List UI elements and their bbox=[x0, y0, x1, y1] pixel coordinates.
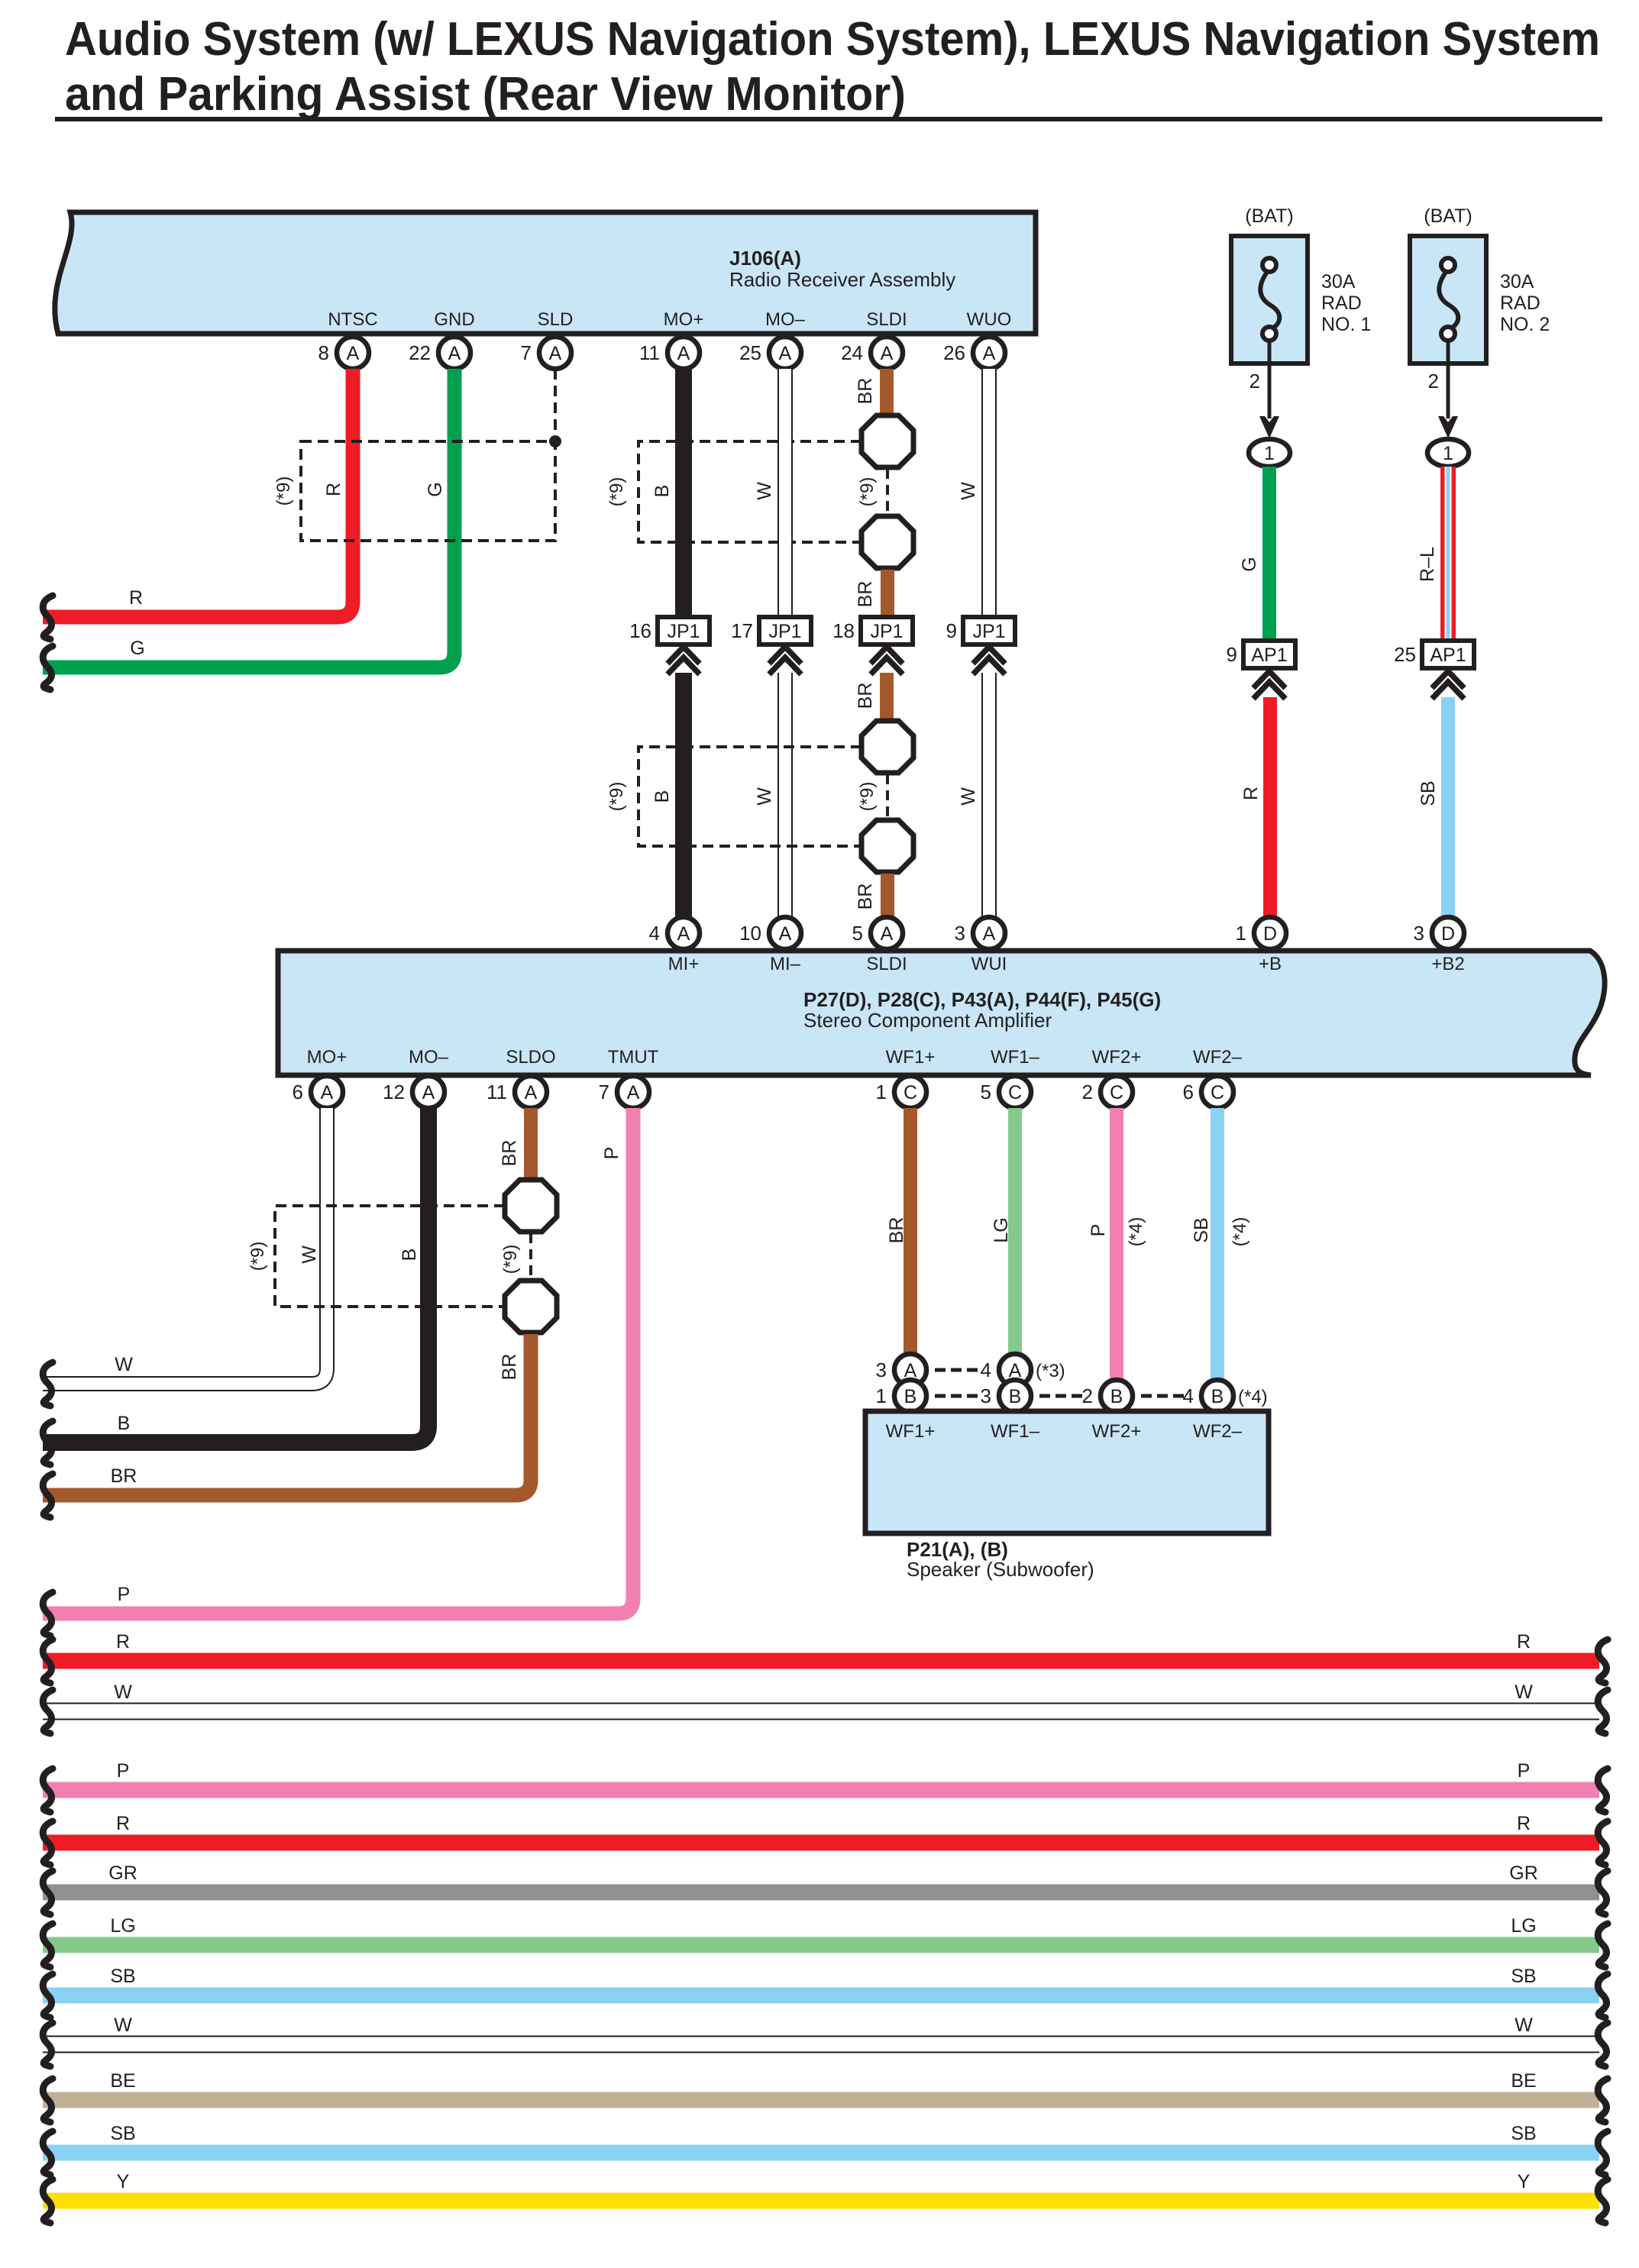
svg-text:A: A bbox=[627, 1082, 640, 1103]
svg-text:P: P bbox=[117, 1760, 130, 1782]
svg-text:A: A bbox=[549, 343, 562, 364]
svg-text:SLDI: SLDI bbox=[866, 954, 907, 974]
break squiggle R left bbox=[43, 596, 53, 639]
svg-text:12: 12 bbox=[383, 1081, 405, 1103]
svg-text:4: 4 bbox=[1183, 1384, 1194, 1407]
svg-text:22: 22 bbox=[409, 341, 431, 364]
svg-text:R: R bbox=[116, 1631, 130, 1653]
svg-text:JP1: JP1 bbox=[667, 621, 700, 642]
break squiggle P right y2344 bbox=[1598, 1769, 1608, 1812]
svg-text:NO. 2: NO. 2 bbox=[1500, 314, 1550, 335]
radio pin 7(A) bbox=[521, 337, 571, 369]
svg-text:17: 17 bbox=[731, 619, 753, 642]
svg-text:1: 1 bbox=[1236, 922, 1246, 945]
break squiggle Y left y2882 bbox=[43, 2179, 53, 2223]
svg-text:BR: BR bbox=[855, 683, 876, 709]
amp bottom pin 2(C) bbox=[1082, 1076, 1133, 1108]
svg-text:SB: SB bbox=[1418, 780, 1439, 806]
wire LG horizontal y2547 bbox=[43, 1937, 1599, 1953]
svg-text:B: B bbox=[118, 1413, 131, 1434]
svg-text:(*9): (*9) bbox=[247, 1242, 268, 1271]
svg-text:11: 11 bbox=[487, 1081, 507, 1103]
svg-text:WF1+: WF1+ bbox=[886, 1421, 936, 1442]
svg-text:P: P bbox=[118, 1584, 131, 1605]
wire SB horizontal y2613 bbox=[43, 1988, 1599, 2004]
svg-text:(*4): (*4) bbox=[1238, 1387, 1268, 1407]
speaker pin 2(B) bbox=[1082, 1380, 1133, 1412]
svg-text:5: 5 bbox=[981, 1081, 991, 1103]
wire W MI- lower bbox=[777, 673, 793, 920]
wire W horizontal y2241 bbox=[43, 1703, 1599, 1720]
svg-text:(*9): (*9) bbox=[857, 477, 878, 507]
wire BR SLDI seg2 bbox=[881, 570, 894, 617]
wire Y horizontal y2882 bbox=[43, 2193, 1599, 2209]
arrowhead fuse 2 bbox=[1438, 416, 1458, 438]
wire W WUI lower bbox=[981, 673, 997, 920]
svg-text:Audio System (w/ LEXUS Navigat: Audio System (w/ LEXUS Navigation System… bbox=[65, 13, 1600, 66]
break squiggle BR left bbox=[43, 1474, 53, 1517]
svg-text:BR: BR bbox=[111, 1465, 137, 1487]
svg-text:16: 16 bbox=[629, 619, 651, 642]
svg-text:(*9): (*9) bbox=[500, 1245, 521, 1275]
break squiggle SB left y2819 bbox=[43, 2131, 53, 2175]
wire G fuse1 to AP1 bbox=[1262, 467, 1276, 641]
radio pin 24(A) bbox=[841, 337, 903, 369]
svg-text:BR: BR bbox=[499, 1354, 520, 1381]
svg-text:A: A bbox=[779, 923, 792, 945]
svg-text:5: 5 bbox=[852, 922, 863, 945]
break squiggle GR left y2478 bbox=[43, 1871, 53, 1914]
amp bottom pin 5(C) bbox=[981, 1076, 1031, 1108]
dashed link octagons 1-2 bbox=[886, 469, 889, 515]
svg-text:A: A bbox=[677, 923, 690, 945]
junction connector JP1 17 bbox=[731, 617, 811, 674]
break squiggle R left y2175 bbox=[43, 1640, 53, 1683]
svg-text:(*4): (*4) bbox=[1230, 1217, 1250, 1247]
svg-text:A: A bbox=[881, 343, 894, 364]
svg-text:(*9): (*9) bbox=[606, 782, 627, 812]
svg-text:Radio Receiver Assembly: Radio Receiver Assembly bbox=[729, 268, 955, 291]
speaker pin 4(A) bbox=[981, 1354, 1031, 1386]
svg-text:R: R bbox=[129, 587, 143, 609]
break squiggle BE right y2750 bbox=[1598, 2079, 1608, 2122]
svg-text:AP1: AP1 bbox=[1430, 645, 1466, 666]
svg-text:R: R bbox=[323, 483, 344, 496]
amp top pin 5(A) bbox=[852, 917, 903, 949]
svg-text:3: 3 bbox=[876, 1359, 887, 1381]
amp top pin 4(A) bbox=[649, 917, 700, 949]
break squiggle W right y2241 bbox=[1598, 1690, 1608, 1733]
shield octagon 6 bbox=[505, 1281, 557, 1333]
svg-text:G: G bbox=[130, 638, 144, 659]
svg-text:4: 4 bbox=[981, 1359, 991, 1381]
shield octagon 3 bbox=[862, 721, 913, 773]
svg-text:C: C bbox=[1211, 1082, 1224, 1103]
radio pin 22(A) bbox=[409, 337, 470, 369]
svg-text:W: W bbox=[114, 1682, 132, 1703]
speaker pin 3(A) bbox=[876, 1354, 926, 1386]
svg-text:8: 8 bbox=[318, 341, 329, 364]
svg-text:W: W bbox=[299, 1245, 320, 1264]
speaker pin 4(B) bbox=[1183, 1380, 1233, 1412]
wire SB WF2- bbox=[1211, 1108, 1224, 1382]
svg-text:W: W bbox=[114, 2014, 132, 2036]
svg-text:W: W bbox=[958, 787, 979, 806]
svg-text:GR: GR bbox=[1509, 1863, 1538, 1884]
amp bottom pin 6(C) bbox=[1183, 1076, 1233, 1108]
svg-text:A: A bbox=[448, 343, 461, 364]
svg-text:(BAT): (BAT) bbox=[1245, 205, 1293, 227]
svg-text:3: 3 bbox=[981, 1384, 991, 1407]
svg-text:B: B bbox=[1110, 1386, 1123, 1407]
wire B MO+ upper bbox=[675, 369, 692, 617]
svg-text:G: G bbox=[425, 482, 446, 496]
svg-text:JP1: JP1 bbox=[972, 621, 1005, 642]
svg-text:P: P bbox=[1518, 1760, 1531, 1782]
svg-text:6: 6 bbox=[293, 1081, 303, 1103]
radio pin 25(A) bbox=[739, 337, 801, 369]
svg-text:P: P bbox=[1088, 1224, 1109, 1237]
wire R horizontal y2413 bbox=[43, 1835, 1599, 1851]
wire R-L fuse2 to AP1 bbox=[1440, 467, 1456, 641]
svg-text:Speaker (Subwoofer): Speaker (Subwoofer) bbox=[907, 1558, 1094, 1581]
svg-text:10: 10 bbox=[739, 922, 761, 945]
wire R horizontal y2175 bbox=[43, 1653, 1599, 1669]
junction connector AP1 25 bbox=[1394, 641, 1474, 699]
break squiggle Y right y2882 bbox=[1598, 2179, 1608, 2223]
svg-text:GR: GR bbox=[108, 1863, 137, 1884]
svg-text:SB: SB bbox=[110, 2123, 135, 2144]
oval connector 1 fuse 2 bbox=[1427, 439, 1469, 467]
svg-text:25: 25 bbox=[1394, 643, 1416, 666]
amp bottom pin 1(C) bbox=[876, 1076, 926, 1108]
break squiggle SB right y2819 bbox=[1598, 2131, 1608, 2175]
wire fuse 2 to connector bbox=[1447, 341, 1450, 418]
svg-text:Stereo Component Amplifier: Stereo Component Amplifier bbox=[803, 1009, 1052, 1032]
shield dashed box MO+/MO- bbox=[638, 441, 862, 542]
shield octagon 5 bbox=[505, 1180, 557, 1232]
wire W horizontal y2677 bbox=[43, 2036, 1599, 2053]
dashes between 1(B) 3(B) bbox=[935, 1394, 978, 1398]
svg-text:3: 3 bbox=[955, 922, 965, 945]
svg-text:+B2: +B2 bbox=[1431, 954, 1464, 974]
svg-text:30A: 30A bbox=[1321, 271, 1356, 292]
svg-text:W: W bbox=[958, 482, 979, 500]
wire W MO- upper bbox=[777, 369, 793, 617]
wire G from GND bbox=[43, 369, 454, 667]
speaker pin 3(B) bbox=[981, 1380, 1031, 1412]
svg-text:B: B bbox=[1009, 1386, 1022, 1407]
amp bottom pin 6(A) bbox=[293, 1076, 343, 1108]
oval connector 1 fuse 1 bbox=[1249, 439, 1290, 467]
speaker pin 1(B) bbox=[876, 1380, 926, 1412]
wire W WUO upper bbox=[981, 369, 997, 617]
arrowhead fuse 1 bbox=[1259, 416, 1279, 438]
svg-text:2: 2 bbox=[1249, 370, 1260, 393]
svg-text:2: 2 bbox=[1428, 370, 1439, 393]
svg-text:2: 2 bbox=[1082, 1384, 1093, 1407]
svg-text:SB: SB bbox=[1511, 1966, 1536, 1987]
junction dot SLD bbox=[549, 435, 561, 447]
wire GR horizontal y2478 bbox=[43, 1885, 1599, 1901]
svg-text:(*9): (*9) bbox=[273, 477, 294, 506]
wire BR WF1+ bbox=[904, 1108, 917, 1356]
junction connector JP1 9 bbox=[946, 617, 1015, 674]
svg-text:B: B bbox=[1211, 1386, 1224, 1407]
svg-text:D: D bbox=[1441, 923, 1455, 945]
fuse element 1 bbox=[1260, 271, 1279, 329]
stereo component amplifier box bbox=[278, 951, 1605, 1075]
shield dashed box NTSC/GND bbox=[301, 441, 555, 541]
svg-text:SB: SB bbox=[1511, 2123, 1536, 2144]
svg-text:J106(A): J106(A) bbox=[729, 247, 801, 270]
svg-text:24: 24 bbox=[841, 341, 863, 364]
svg-text:(*3): (*3) bbox=[1036, 1361, 1065, 1381]
svg-text:7: 7 bbox=[599, 1081, 609, 1103]
svg-text:1: 1 bbox=[1443, 443, 1453, 464]
svg-text:A: A bbox=[321, 1082, 334, 1103]
svg-text:Y: Y bbox=[1518, 2171, 1531, 2192]
break squiggle SB right y2613 bbox=[1598, 1974, 1608, 2018]
svg-text:MO+: MO+ bbox=[664, 309, 704, 330]
svg-text:BE: BE bbox=[110, 2070, 135, 2092]
wire LG WF1- bbox=[1008, 1108, 1022, 1356]
dashed link octagons 3-4 bbox=[886, 774, 889, 819]
wire P TMUT bbox=[43, 1108, 633, 1614]
svg-text:SLD: SLD bbox=[538, 309, 574, 330]
break squiggle R right y2413 bbox=[1598, 1821, 1608, 1865]
fuse box 30A RAD NO. 2 bbox=[1410, 236, 1486, 363]
radio receiver assembly box J106(A) bbox=[55, 212, 1036, 334]
amp top pin 1(D) bbox=[1236, 917, 1286, 949]
fuse box 30A RAD NO. 1 bbox=[1231, 236, 1308, 363]
wire BR SLDO seg1 bbox=[524, 1108, 538, 1181]
svg-text:GND: GND bbox=[434, 309, 474, 330]
svg-text:WF2–: WF2– bbox=[1193, 1421, 1243, 1442]
wire SB horizontal y2819 bbox=[43, 2145, 1599, 2161]
svg-text:MI–: MI– bbox=[770, 954, 801, 974]
svg-text:A: A bbox=[881, 923, 894, 945]
svg-text:R: R bbox=[1517, 1631, 1531, 1653]
dashed wire SLD bbox=[554, 369, 557, 441]
svg-text:4: 4 bbox=[649, 922, 660, 945]
svg-text:LG: LG bbox=[991, 1217, 1012, 1242]
wire P WF2+ bbox=[1110, 1108, 1123, 1382]
svg-text:1: 1 bbox=[876, 1384, 887, 1407]
wire R AP1 to +B bbox=[1263, 697, 1277, 920]
svg-text:SLDI: SLDI bbox=[866, 309, 907, 330]
svg-text:and Parking Assist (Rear View: and Parking Assist (Rear View Monitor) bbox=[65, 68, 906, 121]
svg-text:NTSC: NTSC bbox=[328, 309, 377, 330]
svg-text:R: R bbox=[1240, 787, 1262, 800]
svg-text:11: 11 bbox=[639, 341, 660, 364]
svg-text:A: A bbox=[983, 923, 996, 945]
svg-text:RAD: RAD bbox=[1500, 292, 1540, 314]
svg-text:G: G bbox=[1239, 557, 1260, 571]
svg-text:9: 9 bbox=[946, 619, 957, 642]
svg-text:9: 9 bbox=[1227, 643, 1237, 666]
svg-text:W: W bbox=[1515, 1682, 1533, 1703]
svg-text:B: B bbox=[399, 1249, 420, 1262]
svg-text:WF2+: WF2+ bbox=[1092, 1047, 1142, 1068]
svg-text:AP1: AP1 bbox=[1251, 645, 1287, 666]
shield octagon 2 bbox=[862, 516, 913, 568]
wire B MI+ lower bbox=[675, 673, 692, 920]
svg-text:JP1: JP1 bbox=[870, 621, 903, 642]
svg-text:D: D bbox=[1263, 923, 1277, 945]
svg-text:30A: 30A bbox=[1500, 271, 1534, 292]
svg-text:P27(D), P28(C), P43(A), P44(F): P27(D), P28(C), P43(A), P44(F), P45(G) bbox=[803, 988, 1161, 1011]
wire BE horizontal y2750 bbox=[43, 2092, 1599, 2108]
svg-text:SB: SB bbox=[1191, 1217, 1212, 1242]
break squiggle P left y2344 bbox=[43, 1769, 53, 1812]
svg-text:BR: BR bbox=[499, 1140, 520, 1167]
svg-text:W: W bbox=[754, 787, 775, 806]
svg-text:BR: BR bbox=[855, 378, 876, 405]
svg-text:BR: BR bbox=[855, 884, 876, 910]
svg-text:LG: LG bbox=[1511, 1915, 1536, 1937]
svg-text:TMUT: TMUT bbox=[608, 1047, 659, 1068]
svg-text:SB: SB bbox=[110, 1966, 135, 1987]
svg-text:WUO: WUO bbox=[967, 309, 1012, 330]
break squiggle R left y2413 bbox=[43, 1821, 53, 1865]
title underline bbox=[55, 117, 1602, 121]
svg-text:MO+: MO+ bbox=[307, 1047, 348, 1068]
break squiggle LG right y2547 bbox=[1598, 1924, 1608, 1967]
dashes between 2(B) 4(B) bbox=[1141, 1394, 1184, 1398]
junction connector AP1 9 bbox=[1227, 641, 1295, 699]
junction connector JP1 18 bbox=[832, 617, 913, 674]
break squiggle W left bbox=[43, 1362, 53, 1406]
break squiggle LG left y2547 bbox=[43, 1924, 53, 1967]
break squiggle GR right y2478 bbox=[1598, 1871, 1608, 1914]
radio pin 11(A) bbox=[639, 337, 700, 369]
svg-text:A: A bbox=[983, 343, 996, 364]
amp bottom pin 12(A) bbox=[383, 1076, 445, 1108]
radio pin 26(A) bbox=[943, 337, 1005, 369]
svg-text:W: W bbox=[754, 482, 775, 500]
svg-text:+B: +B bbox=[1259, 954, 1282, 974]
svg-text:2: 2 bbox=[1082, 1081, 1093, 1103]
svg-text:RAD: RAD bbox=[1321, 292, 1362, 314]
fuse element 2 bbox=[1439, 271, 1458, 329]
wire R from NTSC bbox=[43, 369, 353, 617]
svg-text:B: B bbox=[651, 485, 673, 498]
svg-text:Y: Y bbox=[117, 2171, 130, 2192]
svg-text:NO. 1: NO. 1 bbox=[1321, 314, 1371, 335]
svg-text:LG: LG bbox=[110, 1915, 135, 1937]
svg-text:A: A bbox=[347, 343, 360, 364]
speaker subwoofer box bbox=[865, 1411, 1269, 1533]
svg-text:MO–: MO– bbox=[765, 309, 806, 330]
svg-text:C: C bbox=[1008, 1082, 1022, 1103]
svg-text:A: A bbox=[422, 1082, 435, 1103]
svg-text:WF1–: WF1– bbox=[991, 1421, 1040, 1442]
svg-text:A: A bbox=[525, 1082, 538, 1103]
break squiggle BE left y2750 bbox=[43, 2079, 53, 2122]
svg-text:BR: BR bbox=[886, 1217, 907, 1244]
wire BR SLDI seg1 bbox=[880, 369, 894, 417]
dashed link octagons 5-6 bbox=[529, 1233, 532, 1279]
svg-text:MI+: MI+ bbox=[668, 954, 700, 974]
svg-text:B: B bbox=[651, 790, 673, 803]
svg-text:WF1–: WF1– bbox=[991, 1047, 1040, 1068]
break squiggle G left bbox=[43, 646, 53, 690]
svg-text:R: R bbox=[1517, 1813, 1531, 1834]
svg-text:P: P bbox=[601, 1147, 622, 1160]
amp bottom pin 11(A) bbox=[487, 1076, 547, 1108]
svg-text:1: 1 bbox=[1264, 443, 1275, 464]
svg-text:B: B bbox=[904, 1386, 917, 1407]
svg-text:(BAT): (BAT) bbox=[1424, 205, 1472, 227]
svg-text:WF1+: WF1+ bbox=[886, 1047, 936, 1068]
break squiggle W left y2677 bbox=[43, 2023, 53, 2066]
break squiggle W left y2241 bbox=[43, 1690, 53, 1733]
svg-text:SLDO: SLDO bbox=[506, 1047, 555, 1068]
svg-text:C: C bbox=[904, 1082, 917, 1103]
svg-text:WF2–: WF2– bbox=[1193, 1047, 1243, 1068]
break squiggle R right y2175 bbox=[1598, 1640, 1608, 1683]
wire BR SLDI seg3 bbox=[880, 673, 894, 721]
svg-text:W: W bbox=[115, 1354, 133, 1375]
svg-text:26: 26 bbox=[943, 341, 965, 364]
svg-text:3: 3 bbox=[1414, 922, 1424, 945]
wire fuse 1 to connector bbox=[1268, 341, 1272, 418]
svg-text:(*9): (*9) bbox=[606, 477, 627, 507]
svg-text:WF2+: WF2+ bbox=[1092, 1421, 1142, 1442]
wire P horizontal y2344 bbox=[43, 1782, 1599, 1798]
amp top pin 10(A) bbox=[739, 917, 801, 949]
radio pin 8(A) bbox=[318, 337, 369, 369]
svg-text:6: 6 bbox=[1183, 1081, 1194, 1103]
wire W MO+ out bbox=[43, 1108, 327, 1384]
svg-text:18: 18 bbox=[832, 619, 855, 642]
svg-text:WUI: WUI bbox=[971, 954, 1007, 974]
svg-text:R–L: R–L bbox=[1417, 547, 1438, 582]
shield octagon 1 bbox=[862, 415, 913, 467]
svg-text:A: A bbox=[779, 343, 792, 364]
svg-text:1: 1 bbox=[876, 1081, 887, 1103]
svg-text:A: A bbox=[677, 343, 690, 364]
junction connector JP1 16 bbox=[629, 617, 710, 674]
dashes between 3(B) 2(B) bbox=[1039, 1394, 1082, 1398]
svg-text:(*4): (*4) bbox=[1126, 1217, 1146, 1247]
svg-text:JP1: JP1 bbox=[768, 621, 801, 642]
break squiggle W right y2677 bbox=[1598, 2023, 1608, 2066]
wire SB AP1 to +B2 bbox=[1441, 697, 1455, 920]
wire BR SLDI seg4 bbox=[881, 874, 894, 920]
svg-text:BR: BR bbox=[855, 581, 876, 608]
svg-text:R: R bbox=[116, 1813, 130, 1834]
break squiggle B left bbox=[43, 1421, 53, 1465]
wire B MO- out bbox=[43, 1108, 428, 1443]
amp top pin 3(A) bbox=[955, 917, 1005, 949]
svg-text:W: W bbox=[1515, 2014, 1533, 2036]
dashes between 3(A) 4(A) bbox=[935, 1368, 978, 1372]
svg-text:25: 25 bbox=[739, 341, 761, 364]
break squiggle P left bbox=[43, 1592, 53, 1636]
svg-text:MO–: MO– bbox=[409, 1047, 449, 1068]
wire BR SLDO seg2 bbox=[43, 1334, 531, 1495]
break squiggle SB left y2613 bbox=[43, 1974, 53, 2018]
shield dashed box MO out bbox=[275, 1206, 505, 1307]
amp bottom pin 7(A) bbox=[599, 1076, 649, 1108]
svg-text:C: C bbox=[1110, 1082, 1123, 1103]
svg-text:BE: BE bbox=[1511, 2070, 1536, 2092]
svg-text:(*9): (*9) bbox=[857, 782, 878, 812]
shield dashed box lower bbox=[638, 747, 862, 846]
shield octagon 4 bbox=[862, 820, 913, 872]
